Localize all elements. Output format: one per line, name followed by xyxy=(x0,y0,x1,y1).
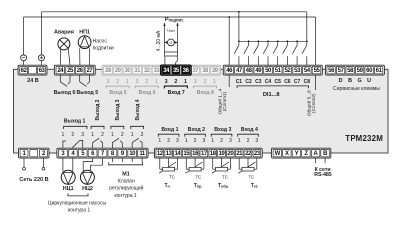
svg-text:Клапан: Клапан xyxy=(118,178,135,184)
svg-text:Сеть 220 В: Сеть 220 В xyxy=(19,177,48,183)
svg-text:4...20 мА: 4...20 мА xyxy=(156,30,162,51)
svg-text:Циркуляционные насосы: Циркуляционные насосы xyxy=(48,200,107,206)
svg-text:Тк1: Тк1 xyxy=(251,183,258,189)
svg-text:(Comm1): (Comm1) xyxy=(222,91,227,111)
svg-text:2: 2 xyxy=(204,79,207,85)
svg-text:C3: C3 xyxy=(255,79,262,85)
svg-text:3: 3 xyxy=(194,79,197,85)
svg-text:G: G xyxy=(170,41,173,45)
svg-text:U: U xyxy=(367,78,371,84)
svg-text:Сервисные клеммы: Сервисные клеммы xyxy=(333,86,380,92)
svg-text:D: D xyxy=(339,78,343,84)
svg-text:3: 3 xyxy=(229,138,232,144)
svg-text:2: 2 xyxy=(71,132,74,138)
svg-text:контура 1: контура 1 xyxy=(114,193,137,199)
svg-text:C4: C4 xyxy=(265,79,272,85)
svg-text:DI1...8: DI1...8 xyxy=(263,92,280,98)
svg-text:RS-485: RS-485 xyxy=(314,172,332,178)
svg-text:ТРМ232М: ТРМ232М xyxy=(345,134,383,143)
svg-text:1: 1 xyxy=(155,79,158,85)
svg-text:2: 2 xyxy=(174,79,177,85)
svg-text:2: 2 xyxy=(145,79,148,85)
svg-text:1: 1 xyxy=(185,138,188,144)
svg-text:C2: C2 xyxy=(245,79,252,85)
svg-text:контура 1: контура 1 xyxy=(68,208,91,214)
svg-text:ТС: ТС xyxy=(169,175,175,180)
svg-text:2: 2 xyxy=(116,79,119,85)
svg-text:ТС: ТС xyxy=(222,175,228,180)
svg-text:Вход 6: Вход 6 xyxy=(139,90,156,96)
svg-text:Вход 4: Вход 4 xyxy=(241,127,258,133)
svg-text:Выход 3: Выход 3 xyxy=(115,99,121,120)
svg-text:X: X xyxy=(285,151,289,157)
svg-text:НЦ1: НЦ1 xyxy=(63,186,74,192)
svg-text:1: 1 xyxy=(111,132,114,138)
svg-text:2: 2 xyxy=(247,138,250,144)
svg-text:Тн: Тн xyxy=(164,183,169,189)
svg-text:Авария: Авария xyxy=(54,30,74,36)
svg-text:3: 3 xyxy=(107,79,110,85)
svg-text:Вход 3: Вход 3 xyxy=(214,127,231,133)
svg-text:Вход 7: Вход 7 xyxy=(168,90,185,96)
svg-text:Выход 1: Выход 1 xyxy=(64,119,86,125)
svg-text:Выход 2: Выход 2 xyxy=(95,99,101,120)
svg-text:1: 1 xyxy=(131,132,134,138)
svg-text:М1: М1 xyxy=(122,171,130,177)
svg-text:НП1: НП1 xyxy=(79,30,90,36)
svg-text:B: B xyxy=(348,78,352,84)
svg-text:2: 2 xyxy=(121,132,124,138)
svg-text:3: 3 xyxy=(165,79,168,85)
svg-text:2: 2 xyxy=(141,132,144,138)
svg-text:1: 1 xyxy=(213,79,216,85)
svg-text:2: 2 xyxy=(194,138,197,144)
svg-text:Вход 8: Вход 8 xyxy=(197,90,214,96)
svg-text:W: W xyxy=(275,151,281,157)
svg-text:Вход 1: Вход 1 xyxy=(161,127,178,133)
svg-text:НЦ2: НЦ2 xyxy=(82,186,93,192)
svg-text:Вход 5: Вход 5 xyxy=(109,90,126,96)
svg-text:1: 1 xyxy=(158,138,161,144)
svg-text:C5: C5 xyxy=(274,79,281,85)
svg-text:1: 1 xyxy=(126,79,129,85)
svg-text:регулирующий: регулирующий xyxy=(109,185,143,192)
svg-text:2: 2 xyxy=(220,138,223,144)
svg-text:Тпр.: Тпр. xyxy=(194,183,203,189)
svg-text:1: 1 xyxy=(91,132,94,138)
svg-text:Вход 2: Вход 2 xyxy=(188,127,205,133)
svg-text:Выход 4: Выход 4 xyxy=(135,99,141,120)
svg-text:3: 3 xyxy=(136,79,139,85)
svg-text:1: 1 xyxy=(184,79,187,85)
svg-text:24 В: 24 В xyxy=(27,78,38,84)
svg-text:2: 2 xyxy=(167,138,170,144)
svg-text:C6: C6 xyxy=(284,79,291,85)
svg-text:ТС: ТС xyxy=(249,175,255,180)
svg-text:C8: C8 xyxy=(304,79,311,85)
svg-text:(Comm2): (Comm2) xyxy=(311,93,316,113)
svg-text:Рподпит.: Рподпит. xyxy=(165,17,184,23)
svg-text:C7: C7 xyxy=(294,79,301,85)
svg-text:3: 3 xyxy=(176,138,179,144)
svg-text:Выход 5: Выход 5 xyxy=(76,90,98,96)
svg-text:1: 1 xyxy=(61,132,64,138)
svg-text:3: 3 xyxy=(202,138,205,144)
svg-text:1: 1 xyxy=(238,138,241,144)
svg-text:Тобр.: Тобр. xyxy=(218,183,229,189)
svg-text:2: 2 xyxy=(101,132,104,138)
svg-text:Uпит: Uпит xyxy=(167,28,175,34)
svg-text:ТС: ТС xyxy=(196,175,202,180)
svg-text:подпитки: подпитки xyxy=(93,46,114,52)
svg-text:3: 3 xyxy=(255,138,258,144)
svg-text:1: 1 xyxy=(211,138,214,144)
svg-text:Выход 6: Выход 6 xyxy=(54,90,76,96)
svg-text:3: 3 xyxy=(81,132,84,138)
svg-text:C1: C1 xyxy=(236,79,243,85)
svg-text:G: G xyxy=(357,78,361,84)
svg-text:Y: Y xyxy=(295,151,299,157)
svg-text:Насос: Насос xyxy=(93,39,108,45)
